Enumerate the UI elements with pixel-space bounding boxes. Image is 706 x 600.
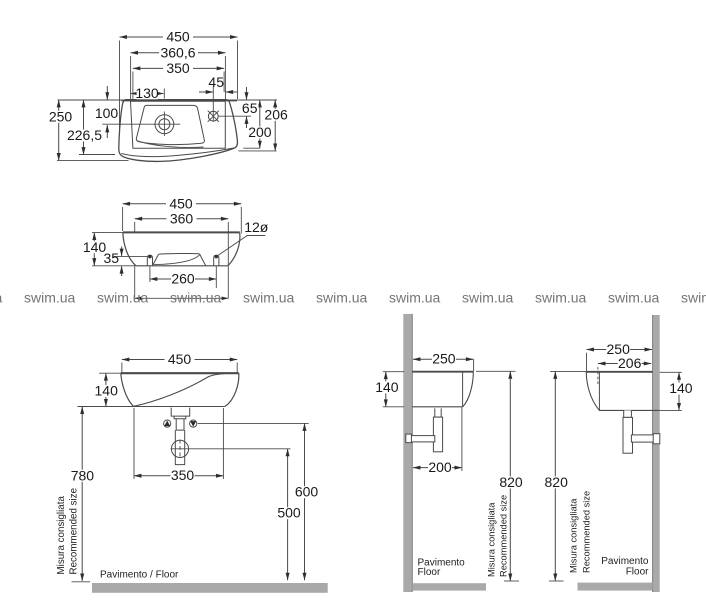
basin body top edge (front) — [123, 231, 240, 233]
basin top edge — [121, 372, 239, 374]
trap circle — [171, 440, 188, 457]
interior swoosh curve — [134, 373, 239, 406]
label 450 — [165, 354, 195, 366]
svg-text:swim.ua: swim.ua — [608, 290, 660, 306]
floor slab (middle) — [412, 583, 486, 590]
drain stub (middle) — [435, 408, 441, 417]
dim 360,6 (plan) — [131, 52, 226, 54]
dim 226,5 (plan left) — [83, 100, 85, 155]
svg-text:Misura consigliata: Misura consigliata — [487, 502, 497, 577]
svg-text:swim.ua: swim.ua — [0, 290, 3, 306]
svg-text:Misura consigliata: Misura consigliata — [569, 498, 579, 573]
outlet pipe to wall (right view) — [631, 435, 656, 442]
bowl bottom crease — [137, 141, 204, 148]
right fixing slot — [214, 255, 219, 265]
svg-text:Recommended size: Recommended size — [582, 491, 592, 573]
basin rim top edge (thick) — [122, 100, 238, 102]
faucet hole X diagonals — [208, 111, 219, 122]
dim 350 — [134, 475, 223, 477]
svg-text:Misura consigliata: Misura consigliata — [56, 496, 67, 575]
label 140 right view — [669, 383, 693, 395]
svg-text:450: 450 — [169, 195, 193, 211]
label 250 right view — [606, 344, 630, 356]
outlet flange (middle) — [406, 434, 412, 443]
svg-text:140: 140 — [95, 383, 119, 399]
label 260 front — [171, 273, 195, 285]
svg-text:450: 450 — [168, 351, 192, 367]
drain centerline tick above — [163, 89, 165, 99]
back wall reference line — [58, 99, 278, 101]
drain hole outer circle — [155, 115, 174, 134]
svg-text:600: 600 — [295, 484, 319, 500]
wall (middle view) — [403, 314, 412, 592]
deck inner edge rectangle — [131, 101, 226, 148]
dim 260 (front) — [150, 278, 216, 280]
dim 200 (plan right) — [259, 100, 261, 148]
svg-text:226,5: 226,5 — [67, 127, 102, 143]
left bolt symbol — [164, 420, 171, 427]
svg-text:Floor: Floor — [418, 567, 441, 578]
svg-text:350: 350 — [166, 60, 190, 76]
label 450 — [163, 31, 193, 43]
washbasin outer outline (plan) — [119, 100, 238, 162]
basin bottom edge (front) — [136, 265, 228, 267]
svg-text:swim.ua: swim.ua — [243, 290, 295, 306]
label 140 middle — [375, 381, 399, 393]
svg-text:Recommended size: Recommended size — [68, 487, 79, 574]
820 bottom tick (right view) — [549, 580, 564, 582]
svg-text:100: 100 — [95, 105, 119, 121]
label 350 — [163, 63, 193, 75]
label 600 — [295, 486, 319, 498]
svg-text:12ø: 12ø — [244, 219, 269, 235]
dim 140 (right view) — [678, 372, 680, 410]
dim 250 (middle) — [413, 358, 473, 360]
drain centerline vertical — [163, 112, 165, 137]
12ø leader line — [217, 236, 265, 257]
basin right edge curve (front) — [228, 233, 240, 266]
drain stub (right view) — [624, 410, 632, 417]
faucet horizontal centerline to right — [219, 115, 251, 117]
left fixing slot — [147, 255, 152, 265]
svg-text:450: 450 — [166, 29, 190, 45]
basin front curve (right view) — [586, 372, 599, 410]
basin front inner vertical edge — [462, 372, 464, 407]
svg-text:140: 140 — [669, 380, 693, 396]
top reference line to 820 — [550, 370, 586, 372]
820 top tick — [476, 370, 516, 372]
dim 140 (front left) — [93, 233, 95, 266]
basin bottom edge — [134, 406, 225, 408]
wall face line — [411, 314, 413, 592]
label 250 middle — [432, 353, 456, 365]
dim 450 (front) — [123, 203, 242, 205]
hidden bottom dimension line under watermark — [135, 297, 229, 299]
outlet flange (right view) — [653, 434, 660, 444]
svg-text:45: 45 — [208, 74, 224, 90]
faucet vertical centerline — [212, 86, 214, 122]
label 450 front — [166, 198, 196, 210]
svg-text:360,6: 360,6 — [160, 44, 195, 60]
label 360 front — [167, 213, 197, 225]
svg-text:35: 35 — [104, 250, 120, 266]
trap pipe (middle) — [433, 417, 442, 452]
outlet pipe to wall (middle) — [409, 436, 434, 442]
bowl crease (front) — [154, 255, 200, 265]
basin top edge (right view) — [586, 371, 652, 373]
dim 100 (plan left) — [106, 86, 108, 100]
label 350 — [171, 470, 195, 482]
svg-text:250: 250 — [49, 108, 73, 124]
floor tick under 780 — [72, 581, 91, 583]
dim 350 (plan) — [133, 67, 224, 69]
dim 820 (middle) — [509, 371, 511, 581]
trap centerline vertical dashed — [179, 440, 181, 459]
dim 200 (middle) — [413, 467, 462, 469]
label 820 right view — [544, 476, 568, 488]
right fixing hole dot — [215, 255, 218, 258]
svg-text:360: 360 — [170, 210, 194, 226]
label 130 — [137, 88, 158, 100]
svg-text:820: 820 — [545, 474, 569, 490]
svg-text:820: 820 — [499, 474, 523, 490]
basin left edge curve — [121, 373, 134, 406]
svg-text:Floor: Floor — [626, 566, 649, 577]
label 206 — [264, 109, 288, 121]
faucet hole circle — [208, 111, 218, 121]
basin right edge curve — [225, 373, 239, 406]
label 206 right view — [618, 358, 642, 370]
svg-text:206: 206 — [264, 106, 288, 122]
svg-text:Recommended size: Recommended size — [499, 495, 509, 577]
label 140 — [95, 385, 119, 397]
label 140 front — [83, 241, 106, 253]
dim 206 (right view) — [598, 363, 651, 365]
drain flange — [174, 416, 186, 419]
trap pipe (right view) — [623, 417, 633, 453]
label 820 middle — [499, 476, 523, 488]
label 200 — [248, 127, 272, 139]
bowl outline — [136, 105, 204, 144]
dim 250 (right view) — [587, 349, 653, 351]
svg-text:780: 780 — [71, 467, 95, 483]
svg-text:swim.ua: swim.ua — [389, 290, 441, 306]
dim 500 — [287, 449, 289, 580]
rim inner front curve — [122, 148, 234, 157]
basin front curve — [463, 372, 474, 407]
dim 65 (plan right) — [246, 87, 248, 100]
svg-text:swim.ua: swim.ua — [170, 290, 222, 306]
820 bottom tick (middle) — [504, 580, 519, 582]
dim 140 (middle) — [385, 372, 387, 407]
label 500 — [277, 507, 301, 519]
dim 130 (plan) — [131, 93, 164, 95]
svg-text:swim.ua: swim.ua — [681, 290, 706, 306]
label 360,6 — [159, 47, 198, 59]
svg-text:250: 250 — [432, 351, 456, 367]
dim 206 (plan right) — [274, 100, 276, 151]
svg-text:200: 200 — [248, 124, 272, 140]
svg-text:350: 350 — [171, 467, 195, 483]
drain hole inner circle — [159, 119, 170, 130]
floor slab (right view) — [578, 583, 653, 591]
svg-text:200: 200 — [428, 459, 452, 475]
label 200 middle — [428, 462, 452, 474]
svg-text:swim.ua: swim.ua — [462, 290, 514, 306]
basin left edge curve (front) — [123, 233, 136, 266]
svg-text:260: 260 — [171, 271, 195, 287]
svg-text:swim.ua: swim.ua — [535, 290, 587, 306]
dim 140 (install front) — [105, 373, 107, 406]
fixing hole centerline (35) — [114, 255, 149, 257]
basin bottom edge (right view) — [599, 409, 660, 411]
dim 780 — [81, 407, 83, 581]
svg-text:swim.ua: swim.ua — [316, 290, 368, 306]
right bolt symbol — [190, 420, 197, 427]
dim 250 (plan left) — [58, 100, 60, 160]
bowl front profile — [153, 253, 206, 265]
wall (right view) — [653, 315, 660, 592]
svg-text:Pavimento / Floor: Pavimento / Floor — [100, 570, 179, 581]
basin bottom edge (middle) — [412, 406, 462, 408]
drain pipe — [175, 430, 184, 465]
basin front inner vertical edge (right view) — [598, 372, 600, 411]
dim 600 — [304, 423, 306, 580]
svg-text:swim.ua: swim.ua — [24, 290, 76, 306]
label 65 — [242, 103, 259, 115]
svg-text:140: 140 — [375, 379, 399, 395]
svg-text:206: 206 — [618, 355, 642, 371]
label 226,5 — [67, 130, 102, 142]
floor slab (left view) — [92, 583, 328, 593]
trap centerline horizontal to 500 — [171, 448, 291, 450]
svg-text:130: 130 — [135, 85, 159, 101]
svg-text:65: 65 — [242, 100, 258, 116]
bolt level reference line to 600 — [198, 422, 309, 424]
drain centerline horizontal — [102, 123, 180, 125]
svg-text:swim.ua: swim.ua — [97, 290, 149, 306]
dim 360 (front) — [135, 218, 229, 220]
drain housing under basin — [171, 408, 190, 417]
dim 35 (front) — [121, 247, 123, 257]
label 250 — [49, 111, 73, 123]
label 780 — [70, 470, 95, 482]
dim 450 (install front) — [122, 359, 237, 361]
drain neck — [176, 419, 184, 430]
dim 820 (right view) — [554, 371, 556, 581]
svg-text:500: 500 — [277, 505, 301, 521]
basin top edge (middle) — [412, 371, 473, 373]
left fixing hole dot — [148, 255, 151, 258]
dim 450 (plan) — [120, 36, 238, 38]
wall face line — [652, 315, 654, 592]
dim 45 (plan) — [199, 91, 213, 93]
